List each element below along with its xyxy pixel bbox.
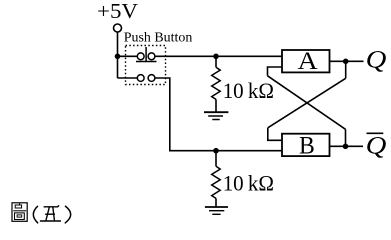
junction node R1 top (213, 54, 219, 60)
wire bottom contact to corner (155, 78, 282, 151)
wire gate A output to Q (330, 60, 364, 62)
gate B box U2 (282, 134, 330, 156)
caption figure five: open paren (33, 206, 38, 223)
svg-text:+5V: +5V (97, 0, 139, 23)
junction supply split (115, 54, 121, 60)
wire feedback A output down (345, 61, 347, 78)
push button actuator stem (145, 47, 147, 62)
wire top contact to gate A input (155, 55, 282, 57)
gate A box U1 (282, 50, 330, 72)
push button bottom contact right (148, 75, 155, 82)
label node Qbar (366, 131, 387, 159)
wire R1 bottom lead (215, 99, 217, 112)
push button bottom contact left (137, 75, 144, 82)
wire feedback B output up (345, 129, 347, 146)
wire feedback into B upper input (268, 128, 282, 141)
caption figure five: glyph tu (picture) (12, 203, 27, 222)
wire junction to top contact (118, 55, 138, 57)
push button S1 dotted enclosure (126, 46, 166, 85)
svg-text:B: B (299, 132, 315, 160)
wire R2 top lead (215, 151, 217, 167)
push button actuator bar (136, 61, 157, 63)
ground GND2 (205, 207, 228, 214)
push button top contact left (137, 53, 144, 60)
wire gate B output to Qbar (330, 145, 364, 147)
svg-text:Q: Q (366, 45, 387, 73)
gate B letter (299, 132, 315, 160)
label R2 value 10 kOhm (223, 170, 274, 195)
gate A letter (297, 46, 317, 74)
wire +5V vertical to lower contact (117, 32, 119, 78)
power +5V label (97, 0, 139, 23)
terminal +5V open circle (114, 24, 122, 32)
svg-text:10 kΩ: 10 kΩ (223, 78, 274, 103)
caption figure five: glyph wu (five) (40, 205, 61, 221)
wire supply to bottom contact (118, 77, 138, 79)
label R1 value 10 kOhm (223, 78, 274, 103)
svg-text:A: A (297, 46, 317, 74)
push button top contact right (148, 53, 155, 60)
junction node Qbar (343, 144, 349, 150)
wire feedback diagonal A to B (268, 78, 346, 128)
ground GND1 (204, 112, 228, 119)
junction node R2 top (213, 148, 219, 154)
resistor R2 zigzag (212, 166, 221, 198)
svg-text:Q: Q (366, 131, 387, 159)
resistor R1 zigzag (212, 67, 221, 99)
label Push Button (124, 29, 193, 44)
junction node Q (343, 59, 349, 65)
caption figure five: close paren (65, 206, 71, 223)
wire feedback diagonal B to A (268, 76, 346, 130)
svg-text:10 kΩ: 10 kΩ (223, 170, 274, 195)
wire R1 top lead (215, 56, 217, 67)
label node Q (366, 45, 387, 73)
wire R2 bottom lead (215, 198, 217, 207)
wire gate A lower input (268, 67, 283, 76)
svg-text:Push Button: Push Button (124, 29, 193, 44)
